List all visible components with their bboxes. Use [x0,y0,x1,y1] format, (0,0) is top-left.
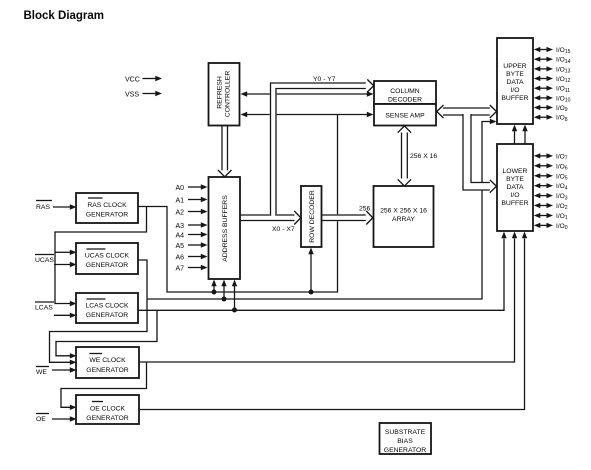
wire A1 input [176,197,208,205]
svg-text:I/O13: I/O13 [556,66,571,74]
refresh controller U1 [209,63,240,126]
svg-text:BIAS: BIAS [397,438,413,445]
svg-text:GENERATOR: GENERATOR [86,212,129,219]
memory array U6 [374,186,434,247]
wire WE clock output: long line right, up into lower byte buffer [139,239,515,363]
svg-text:I/O14: I/O14 [556,57,571,65]
wire OE pass-through arrow to upper buffer [522,125,527,145]
svg-text:I/O0: I/O0 [556,223,568,231]
node UCAS label [35,255,54,265]
node junction dot on UCAS net at address buffers riser [222,297,227,302]
svg-text:GENERATOR: GENERATOR [86,415,129,422]
svg-text:ARRAY: ARRAY [392,216,415,223]
svg-text:A6: A6 [176,254,185,261]
bus row decoder to array [321,211,373,225]
svg-text:ROW DECODER: ROW DECODER [309,190,316,243]
svg-text:X0 - X7: X0 - X7 [272,226,295,233]
WE clock generator G4 [76,347,139,378]
svg-text:I/O: I/O [510,192,519,199]
wire refresh to column decoder line [241,91,374,96]
wire RAS branch down-left to UCAS/LCAS top inputs [55,207,147,304]
wire LCAS branch down-left to WE 1st input [56,310,157,356]
svg-text:CONTROLLER: CONTROLLER [225,71,232,118]
svg-text:256 X 256 X 16: 256 X 256 X 16 [380,208,427,215]
RAS clock generator G1 [76,193,138,223]
wire RAS pin input [53,204,77,209]
svg-text:I/O12: I/O12 [556,76,571,84]
wire UCAS pin input [54,262,77,267]
svg-text:UPPER: UPPER [503,63,527,70]
wire branch to UCAS top input [55,250,77,255]
bus sense amp to upper byte buffer (bidirectional) [437,105,497,118]
bus Y0-Y7 to column decoder [271,79,374,217]
svg-text:REFRESH: REFRESH [217,76,224,109]
I/O 15..8 bidirectional arrows (upper) [534,47,553,120]
wire riser to address buffers from UCAS net [221,280,226,300]
svg-text:RAS CLOCK: RAS CLOCK [87,202,127,209]
svg-text:SUBSTRATE: SUBSTRATE [385,429,426,436]
node OE label [36,414,49,424]
node I/O7-0 labels [556,153,568,231]
bus branch down to lower byte buffer [463,113,497,193]
svg-text:UCAS: UCAS [35,257,54,264]
svg-text:I/O8: I/O8 [556,115,568,123]
wire OE clock output: long line right, up into lower byte buffer [139,239,525,410]
sense amp U5 [374,104,436,126]
svg-text:SENSE AMP: SENSE AMP [385,113,425,120]
svg-text:A0: A0 [176,185,185,192]
svg-text:BUFFER: BUFFER [501,200,528,207]
svg-text:A4: A4 [176,232,185,239]
bus sense amp to array (bidirectional) [398,126,411,186]
svg-text:DATA: DATA [506,79,524,86]
svg-text:VSS: VSS [125,92,139,99]
row decoder U3 [301,186,322,247]
svg-text:GENERATOR: GENERATOR [384,447,427,454]
node junction dot on LCAS net at address buffers riser [232,308,237,313]
svg-text:I/O6: I/O6 [556,163,568,171]
UCAS clock generator G2 [76,243,138,274]
wire A4 input [176,232,208,240]
node LCAS label [35,302,54,312]
wire UCAS clock output: down and left to WE 2nd input [50,260,148,362]
wire WE pass-through arrow to upper buffer [512,125,517,145]
svg-text:RAS: RAS [36,204,50,211]
node RAS label [36,201,52,212]
svg-text:I/O5: I/O5 [556,173,568,181]
wire LCAS clock output: long line right, up into lower byte buffer [138,239,504,311]
svg-text:UCAS CLOCK: UCAS CLOCK [85,253,130,260]
svg-text:OE: OE [36,416,46,423]
wire arrowhead LCAS top input [70,301,77,306]
wire riser to address buffers from LCAS net [232,280,237,311]
svg-text:I/O10: I/O10 [556,95,571,103]
node junction dot on RAS net at address buffers riser [212,290,217,295]
node WE label [36,367,49,377]
substrate bias generator G6 [380,423,432,454]
svg-text:LOWER: LOWER [503,168,528,175]
svg-text:DECODER: DECODER [388,96,422,103]
node junction dot on RAS net at row decoder riser [309,290,314,295]
wire OE pin input [52,416,77,421]
OE clock generator G5 [76,395,139,424]
wire refresh to sense amp line [241,112,374,117]
lower byte data I/O buffer U8 [497,144,533,231]
wire LCAS pin input [54,313,77,318]
wire riser to row decoder [308,248,313,293]
svg-text:OE CLOCK: OE CLOCK [90,406,126,413]
LCAS clock generator G3 [76,293,138,323]
svg-text:I/O11: I/O11 [556,86,570,94]
svg-text:GENERATOR: GENERATOR [86,312,129,319]
svg-text:DATA: DATA [506,184,524,191]
VCC pin [125,76,162,84]
svg-text:WE CLOCK: WE CLOCK [89,357,126,364]
column decoder U4 [374,81,436,104]
bus refresh controller to address buffers [218,126,232,177]
wire A2 input [176,209,208,217]
wire RAS clock output net: right, down, right, up to refresh/sense line [138,115,338,293]
svg-text:I/O15: I/O15 [556,47,571,55]
svg-text:GENERATOR: GENERATOR [86,262,129,269]
svg-text:I/O2: I/O2 [556,203,568,211]
svg-text:VCC: VCC [125,77,140,84]
wire A5 input [176,242,208,250]
svg-text:256: 256 [359,206,371,213]
svg-text:GENERATOR: GENERATOR [86,367,129,374]
wire A6 input [176,254,208,261]
svg-text:BUFFER: BUFFER [501,95,528,102]
svg-text:A1: A1 [176,197,185,204]
svg-text:ADDRESS BUFFERS: ADDRESS BUFFERS [222,195,229,262]
svg-text:I/O: I/O [510,87,519,94]
svg-text:256 X 16: 256 X 16 [410,153,437,160]
svg-text:Block Diagram: Block Diagram [24,10,105,22]
svg-text:WE: WE [36,369,47,376]
wire WE pin input [52,367,77,372]
svg-text:I/O3: I/O3 [556,193,568,201]
svg-text:I/O4: I/O4 [556,183,568,191]
svg-text:I/O7: I/O7 [556,153,568,161]
svg-text:LCAS CLOCK: LCAS CLOCK [85,303,129,310]
svg-text:A2: A2 [176,209,185,216]
wire A3 input [176,222,208,230]
wire riser to address buffers from RAS net [211,280,216,293]
bus X0-X7 address buffers to row decoder [240,211,301,225]
address buffers U2 [209,177,241,279]
svg-text:A7: A7 [176,265,185,272]
svg-text:BYTE: BYTE [506,71,524,78]
I/O 7..0 bidirectional arrows (lower) [534,153,553,228]
svg-text:COLUMN: COLUMN [390,88,420,95]
svg-text:A5: A5 [176,243,185,250]
svg-text:BYTE: BYTE [506,176,524,183]
wire A0 input [176,184,208,192]
node I/O15-8 labels [556,47,571,123]
upper byte data I/O buffer U7 [497,38,533,124]
wire A7 input [176,265,208,273]
svg-text:I/O9: I/O9 [556,105,568,113]
svg-text:I/O1: I/O1 [556,213,568,221]
svg-text:A3: A3 [176,223,185,230]
wire UCAS branch right to upper byte buffer [147,122,490,300]
svg-text:Y0 - Y7: Y0 - Y7 [313,76,336,83]
svg-text:LCAS: LCAS [35,305,53,312]
wire WE branch down-left to OE top input [61,362,147,407]
VSS pin [125,91,162,99]
